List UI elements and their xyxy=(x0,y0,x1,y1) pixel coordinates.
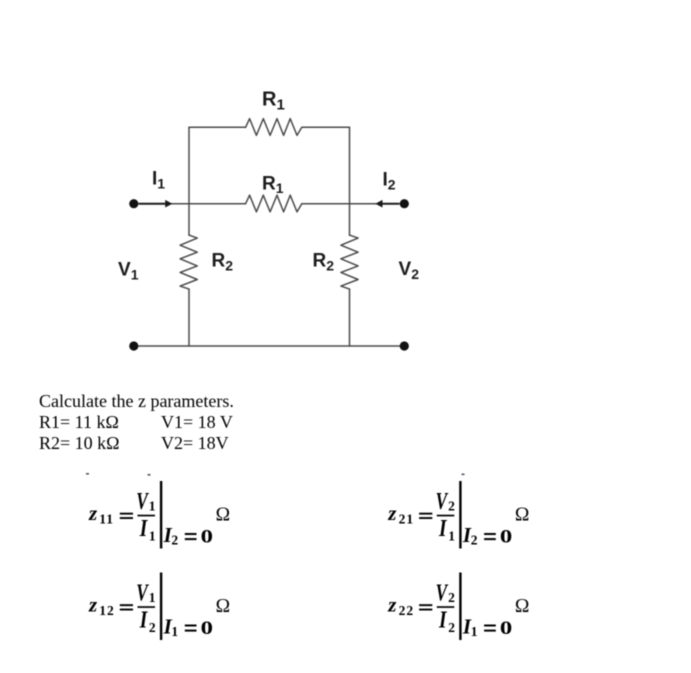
svg-text:1: 1 xyxy=(149,529,156,544)
equation z21 = V2/I1 |I2=0 xyxy=(387,481,529,549)
svg-text:2: 2 xyxy=(448,590,455,605)
svg-text:Ω: Ω xyxy=(515,596,530,617)
svg-text:I: I xyxy=(438,515,448,542)
resistor R1 (top, horizontal zigzag) xyxy=(246,119,302,136)
terminal node: port2 bottom dot xyxy=(400,341,409,350)
wire: right vertical bottom segment xyxy=(349,289,351,346)
svg-text:R1: R1 xyxy=(262,174,284,197)
evaluation bar xyxy=(459,481,461,549)
equation z11 = V1/I1 |I2=0 xyxy=(88,481,230,549)
svg-text:1: 1 xyxy=(171,624,178,639)
equals sign xyxy=(419,513,432,515)
evaluation bar xyxy=(459,573,461,641)
svg-text:2: 2 xyxy=(448,498,455,513)
equation z12 = V1/I2 |I1=0 xyxy=(88,573,230,641)
current arrow I1 (shaft + head) xyxy=(139,203,166,205)
svg-text:Ω: Ω xyxy=(515,504,530,525)
fraction bar xyxy=(138,606,156,608)
terminal node: port1 top dot xyxy=(129,199,138,208)
wire: middle horizontal left of R1 xyxy=(134,203,246,205)
svg-text:0: 0 xyxy=(500,617,512,639)
svg-text:R2: R2 xyxy=(212,251,234,274)
wire: bottom horizontal xyxy=(134,345,404,347)
svg-text:1: 1 xyxy=(149,498,156,513)
svg-text:11: 11 xyxy=(99,512,114,527)
svg-text:2: 2 xyxy=(171,532,178,547)
svg-text:I: I xyxy=(438,607,448,634)
evaluation bar xyxy=(160,481,162,549)
svg-text:z: z xyxy=(88,593,98,617)
svg-text:z: z xyxy=(387,593,397,617)
resistor R2 (right, vertical zigzag) xyxy=(341,235,358,289)
svg-text:V: V xyxy=(436,579,449,607)
svg-text:V: V xyxy=(136,579,149,607)
svg-text:0: 0 xyxy=(201,617,213,639)
fraction bar xyxy=(138,515,156,517)
svg-text:0: 0 xyxy=(201,525,213,547)
equation z22 = V2/I2 |I1=0 xyxy=(387,573,529,641)
svg-text:1: 1 xyxy=(471,624,478,639)
current arrow I2 (shaft + head) xyxy=(381,203,399,205)
svg-text:I: I xyxy=(139,515,149,542)
wire: right vertical top segment xyxy=(349,127,351,235)
stray mark (artifact dot) mid xyxy=(148,474,151,476)
svg-text:V1: V1 xyxy=(118,260,139,283)
wire: middle horizontal right of R1 xyxy=(302,203,403,205)
fraction bar xyxy=(437,515,455,517)
svg-text:z: z xyxy=(88,501,98,525)
wire: top horizontal right of R1 xyxy=(302,126,350,128)
svg-text:I2: I2 xyxy=(383,170,396,193)
svg-text:V: V xyxy=(436,487,449,515)
problem statement text xyxy=(39,391,234,453)
svg-text:Ω: Ω xyxy=(216,504,231,525)
equals sign xyxy=(120,604,133,606)
svg-text:1: 1 xyxy=(448,529,455,544)
stray mark (artifact dot) right xyxy=(462,474,465,476)
svg-text:2: 2 xyxy=(149,620,156,635)
evaluation bar xyxy=(160,573,162,641)
fraction bar xyxy=(437,606,455,608)
terminal node: port1 bottom dot xyxy=(129,341,138,350)
svg-text:Ω: Ω xyxy=(216,596,231,617)
wire: left vertical bottom segment xyxy=(188,289,190,346)
equals sign xyxy=(419,604,432,606)
svg-text:R2: R2 xyxy=(313,251,335,274)
svg-text:z: z xyxy=(387,501,397,525)
svg-text:V2: V2 xyxy=(399,259,420,282)
wire: top horizontal left of R1 xyxy=(189,126,246,128)
stray mark (artifact dot) left xyxy=(86,473,89,475)
svg-text:R1: R1 xyxy=(262,89,285,114)
svg-text:I1: I1 xyxy=(152,169,165,192)
svg-text:2: 2 xyxy=(471,532,478,547)
svg-text:2: 2 xyxy=(448,620,455,635)
svg-text:V: V xyxy=(136,487,149,515)
resistor R2 (left, vertical zigzag) xyxy=(180,235,197,289)
wire: left vertical top segment xyxy=(188,127,190,235)
svg-text:0: 0 xyxy=(500,525,512,547)
svg-text:I: I xyxy=(139,607,149,634)
equals sign xyxy=(120,513,133,515)
resistor R1 (middle, horizontal zigzag) xyxy=(246,195,302,212)
svg-text:22: 22 xyxy=(399,603,415,618)
svg-text:1: 1 xyxy=(149,590,156,605)
svg-text:21: 21 xyxy=(399,512,415,527)
terminal node: port2 top dot xyxy=(400,199,409,208)
svg-text:12: 12 xyxy=(99,603,115,618)
